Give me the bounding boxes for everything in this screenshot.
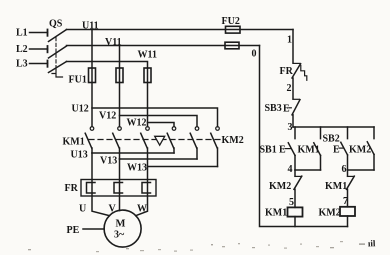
wire W phase drop [147, 68, 149, 127]
contactor KM1 main contact W [141, 127, 150, 148]
wire U13 [92, 152, 174, 154]
svg-text:SB3: SB3 [265, 103, 282, 114]
wire V to motor [119, 159, 121, 211]
mechanical linkage dashed line [89, 139, 221, 141]
svg-text:2: 2 [287, 83, 292, 94]
wire bottom of KM1 contact W [147, 148, 149, 167]
wire SB2 bottom [347, 155, 349, 170]
mechanical interlock triangle [155, 136, 165, 145]
svg-text:M: M [116, 219, 126, 230]
wire bottom of KM2 contact 1 [173, 148, 175, 153]
contactor KM2 main contact 1 [167, 127, 176, 148]
wire L1 phase to right rail [67, 29, 294, 31]
svg-text:FR: FR [280, 66, 294, 77]
wire KM2 aux branch top [373, 127, 375, 139]
contactor KM2 main contact 2 [190, 127, 199, 148]
fuse FU2 [222, 16, 241, 49]
svg-text:E: E [333, 145, 340, 156]
terminal L3 [16, 59, 48, 70]
svg-text:L1: L1 [16, 28, 28, 39]
contactor KM1 main contact V [113, 127, 122, 148]
wire rail between FR and SB3 [292, 78, 294, 99]
svg-text:L3: L3 [16, 59, 28, 70]
wire coil KM2 to bottom [347, 216, 349, 227]
wire bottom of KM1 contact V [119, 148, 121, 159]
svg-text:KM1: KM1 [265, 208, 287, 219]
wire SB1 bottom [294, 155, 296, 170]
pushbutton SB1 (NO start fwd) [260, 143, 296, 156]
wire W13 [148, 166, 218, 168]
wire V phase drop [119, 46, 121, 127]
wire right rail top [292, 30, 294, 64]
svg-text:KM2: KM2 [269, 181, 291, 192]
contact KM2 aux (NO hold) [349, 142, 374, 156]
switch QS [49, 19, 67, 78]
svg-text:U13: U13 [71, 150, 88, 161]
svg-text:3~: 3~ [114, 230, 125, 241]
svg-text:QS: QS [49, 19, 63, 30]
wire bottom of KM1 contact U [91, 148, 93, 153]
svg-text:KM1: KM1 [63, 137, 85, 148]
svg-text:1: 1 [287, 35, 292, 46]
fuse FU1 [69, 68, 152, 86]
thermal relay FR heaters [65, 180, 157, 197]
wire W12 branch to KM2 [148, 123, 175, 127]
svg-text:PE: PE [67, 225, 80, 236]
wire node 4 [295, 169, 321, 171]
contactor KM1 main contact U [85, 127, 94, 148]
wire KM2 aux bottom [373, 154, 375, 170]
svg-text:FU1: FU1 [69, 75, 87, 86]
svg-text:KM2: KM2 [222, 135, 244, 146]
wire U12 branch to KM2 [92, 108, 218, 127]
svg-text:KM2: KM2 [349, 145, 371, 156]
thermal relay contact FR (NC) [280, 63, 307, 80]
node PE [67, 225, 105, 236]
wire SB2 branch top [347, 127, 349, 139]
wire SB1 branch top [294, 127, 296, 139]
svg-text:W13: W13 [127, 163, 147, 174]
terminal L1 [16, 28, 48, 39]
contactor KM2 main contact 3 [211, 127, 220, 148]
wire rail SB3 to node 3 [292, 115, 294, 127]
svg-text:ıil: ıil [368, 238, 376, 248]
contact KM2 interlock (NC) [269, 170, 302, 192]
wire node 3 bus [293, 126, 374, 128]
motor M [104, 210, 141, 247]
svg-text:SB1: SB1 [260, 145, 277, 156]
svg-text:SB2: SB2 [323, 134, 340, 145]
svg-text:W: W [137, 204, 147, 215]
svg-text:W11: W11 [138, 50, 157, 61]
wire node 6 [348, 169, 375, 171]
wire U phase drop [91, 30, 93, 127]
svg-text:E: E [279, 145, 286, 156]
contact KM1 interlock (NC) [325, 170, 354, 192]
svg-text:W12: W12 [127, 118, 147, 129]
wire coil KM1 to bottom [294, 217, 296, 227]
wire U to motor [92, 153, 110, 216]
wire V13 [120, 158, 198, 160]
svg-text:V12: V12 [99, 111, 116, 122]
svg-text:L2: L2 [16, 44, 28, 55]
terminal L2 [16, 44, 48, 55]
svg-text:5: 5 [289, 197, 294, 208]
wire KM1 NC to coil KM2 [347, 189, 349, 207]
contact KM1 aux (NO hold) [298, 143, 321, 156]
svg-text:FU2: FU2 [222, 16, 240, 27]
wire W to motor [136, 167, 148, 216]
svg-text:6: 6 [342, 164, 347, 175]
coil KM2 [319, 207, 356, 219]
coil KM1 [265, 207, 303, 218]
svg-text:KM1: KM1 [325, 181, 347, 192]
wire 0 rail [260, 46, 348, 227]
svg-text:E: E [283, 104, 290, 115]
wire L2 phase to 0 rail [67, 45, 260, 47]
wire KM2 NC to coil KM1 [294, 189, 296, 207]
svg-text:U11: U11 [82, 21, 99, 32]
wire V12 branch to KM2 [120, 116, 198, 127]
pushbutton SB3 (NC stop) [265, 99, 301, 115]
svg-text:V13: V13 [100, 156, 117, 167]
wire bottom of KM2 contact 3 [217, 148, 219, 167]
pushbutton SB2 (NO start rev) [323, 134, 348, 156]
wire KM1 aux bottom [320, 155, 322, 170]
svg-text:0: 0 [252, 49, 257, 60]
wire KM1 aux branch top [320, 127, 322, 139]
svg-text:4: 4 [288, 164, 293, 175]
svg-text:FR: FR [65, 183, 79, 194]
wire L3 phase [67, 62, 148, 69]
svg-text:3: 3 [288, 122, 293, 133]
svg-text:KM2: KM2 [319, 208, 341, 219]
svg-text:U: U [79, 204, 86, 215]
wire bottom of KM2 contact 2 [196, 148, 198, 159]
svg-text:U12: U12 [72, 104, 89, 115]
